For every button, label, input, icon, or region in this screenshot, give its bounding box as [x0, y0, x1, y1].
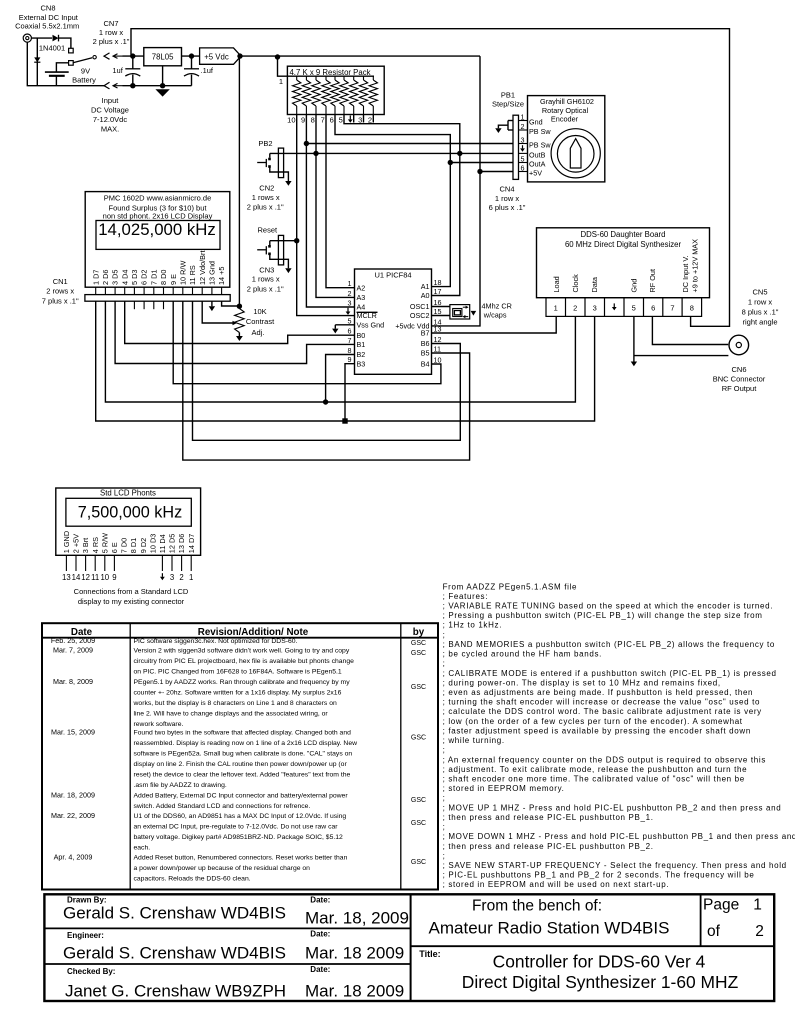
DDS-60 daughter board	[537, 228, 710, 298]
svg-text:1 rows x: 1 rows x	[252, 193, 280, 202]
svg-text:PB2: PB2	[258, 139, 272, 148]
svg-text:1: 1	[348, 279, 352, 288]
svg-text:10: 10	[434, 356, 442, 365]
svg-text:Mar. 8, 2009: Mar. 8, 2009	[53, 677, 93, 686]
wire net D6/B2/Clock	[105, 301, 575, 402]
svg-text:A1: A1	[421, 282, 430, 291]
input DC voltage label	[91, 96, 129, 134]
svg-text:3 D5: 3 D5	[111, 270, 120, 285]
wire DDS Gnd pin to ground and BNC shell	[633, 316, 635, 361]
svg-text:8 D0: 8 D0	[159, 270, 168, 285]
svg-text:2 rows x: 2 rows x	[46, 287, 74, 296]
capacitor C1 1uf	[112, 56, 140, 86]
svg-text:;: ;	[443, 659, 446, 668]
svg-text:; MOVE UP 1 MHZ - Press and ho: ; MOVE UP 1 MHZ - Press and hold PIC-EL …	[443, 803, 782, 812]
svg-text:CN5: CN5	[752, 288, 767, 297]
svg-text:18: 18	[434, 278, 442, 287]
wire net A4: pack pin9 to PIC pin3	[306, 115, 354, 308]
ground symbol main	[155, 89, 169, 96]
wire net D4/B0	[125, 301, 355, 343]
svg-text:16: 16	[434, 298, 442, 307]
svg-text:; CALIBRATE MODE is entered if: ; CALIBRATE MODE is entered if a pushbut…	[443, 669, 777, 678]
svg-text:; stored in EEPROM and will be: ; stored in EEPROM and will be used on n…	[443, 880, 670, 889]
svg-text:Amateur Radio Station WD4BIS: Amateur Radio Station WD4BIS	[429, 919, 670, 938]
svg-text:;: ;	[443, 630, 446, 639]
node OutA/A1 junction	[448, 160, 453, 165]
svg-text:circuitry from PIC EL projectb: circuitry from PIC EL projectboard, hex …	[134, 658, 355, 665]
svg-text:Added Battery, External DC Inp: Added Battery, External DC Input connect…	[134, 792, 349, 799]
svg-text:1: 1	[279, 77, 283, 86]
svg-text:1 row x: 1 row x	[748, 298, 772, 307]
svg-text:9: 9	[348, 355, 352, 364]
wire B3 to D7 net	[345, 364, 355, 421]
svg-text:Janet G. Crenshaw WB9ZPH: Janet G. Crenshaw WB9ZPH	[65, 982, 286, 1001]
svg-text:10 D3: 10 D3	[148, 534, 157, 553]
svg-text:Battery: Battery	[72, 76, 96, 85]
svg-text:B6: B6	[421, 339, 430, 348]
svg-text:From AADZZ PEgen5.1.ASM file: From AADZZ PEgen5.1.ASM file	[443, 582, 578, 591]
svg-text:14,025,000 kHz: 14,025,000 kHz	[98, 220, 216, 239]
svg-text:software is PEgen52a. Small bu: software is PEgen52a. Small bug when cal…	[134, 751, 353, 758]
svg-text:12 D5: 12 D5	[168, 534, 177, 553]
svg-text:Clock: Clock	[571, 274, 580, 293]
svg-text:reset) the device to clear the: reset) the device to clear the leftover …	[134, 772, 351, 779]
svg-text:;: ;	[443, 746, 446, 755]
svg-text:2: 2	[368, 115, 372, 124]
terminal square (ext DC throw)	[69, 48, 74, 53]
node +5/CN4 junction	[477, 169, 482, 174]
svg-text:line 2. Will have to change di: line 2. Will have to change displays and…	[134, 710, 329, 717]
wire net R/W/B5	[183, 301, 470, 460]
svg-text:Added Reset button, Renumbered: Added Reset button, Renumbered connector…	[134, 854, 348, 861]
wire encoder +5V	[480, 171, 513, 173]
svg-text:5 R/W: 5 R/W	[100, 533, 109, 553]
LCD Gnd pin ground	[211, 301, 213, 306]
pushbutton PB2	[257, 139, 291, 186]
svg-text:6: 6	[348, 327, 352, 336]
svg-text:2: 2	[573, 303, 577, 312]
svg-text:Reset: Reset	[258, 226, 279, 235]
svg-text:Mar. 22, 2009: Mar. 22, 2009	[51, 811, 95, 820]
connector CN2	[247, 148, 284, 211]
svg-text:9V: 9V	[81, 67, 90, 76]
switch S1 power select	[69, 56, 97, 66]
svg-text:GSC: GSC	[411, 684, 426, 691]
svg-text:GSC: GSC	[411, 650, 426, 657]
wire Reset to MCLR net	[270, 240, 297, 242]
svg-text:B4: B4	[421, 360, 430, 369]
wire LCD +5 pin to +5 net	[222, 301, 240, 306]
svg-text:switch. Added Standard LCD and: switch. Added Standard LCD and connectio…	[134, 803, 311, 810]
svg-text:5: 5	[348, 316, 352, 325]
svg-text:Gnd: Gnd	[529, 118, 543, 127]
svg-text:Load: Load	[552, 276, 561, 292]
svg-text:Feb. 25, 2009: Feb. 25, 2009	[51, 636, 95, 645]
svg-text:Version 2 with siggen3d softwa: Version 2 with siggen3d software didn’t …	[134, 648, 350, 655]
svg-text:GSC: GSC	[411, 820, 426, 827]
wire net RS/B6	[193, 301, 461, 440]
svg-text:9: 9	[301, 115, 305, 124]
svg-text:; be cycled around the HF ham: ; be cycled around the HF ham bands.	[443, 650, 602, 659]
wire +5 into pack pin 1	[278, 56, 375, 76]
wire net MCLR: pack pin10 to PIC pin4	[297, 115, 355, 316]
svg-text:8 D1: 8 D1	[129, 538, 138, 553]
svg-text:1 row x: 1 row x	[495, 194, 519, 203]
connector CN3	[247, 235, 284, 293]
svg-text:Date:: Date:	[310, 965, 330, 974]
svg-text:7: 7	[670, 303, 674, 312]
svg-text:7: 7	[348, 336, 352, 345]
Std LCD pinout reference block	[56, 488, 201, 555]
svg-text:GSC: GSC	[411, 859, 426, 866]
node D6/B2 junction	[323, 399, 328, 404]
svg-text:OutB: OutB	[529, 150, 546, 159]
wire encoder OutA to A1 net	[450, 162, 513, 164]
svg-text:Apr. 4, 2009: Apr. 4, 2009	[54, 852, 93, 861]
battery 9V	[45, 63, 96, 86]
svg-text:; even as adjustments are bein: ; even as adjustments are being made. If…	[443, 688, 754, 697]
svg-text:Checked By:: Checked By:	[67, 967, 115, 976]
svg-text:3: 3	[348, 299, 352, 308]
svg-text:1N4001: 1N4001	[39, 44, 65, 53]
svg-text:each.: each.	[134, 845, 151, 852]
svg-text:;: ;	[443, 823, 446, 832]
svg-text:by: by	[413, 627, 425, 638]
BNC connector CN6	[713, 335, 766, 393]
wire PB2 to A3 net and encoder OutB	[270, 152, 513, 154]
svg-text:Grayhill GH6102: Grayhill GH6102	[540, 97, 594, 106]
svg-text:8: 8	[311, 115, 315, 124]
svg-text:OSC2: OSC2	[410, 311, 430, 320]
svg-text:; BAND MEMORIES a pushbutton s: ; BAND MEMORIES a pushbutton switch (PIC…	[443, 640, 775, 649]
node 1uf/Vin junction	[130, 53, 135, 58]
svg-text:A3: A3	[357, 293, 366, 302]
svg-text:; An external frequency counte: ; An external frequency counter on the D…	[443, 755, 766, 764]
svg-text:Gnd: Gnd	[630, 279, 639, 293]
node .1uf junction	[189, 53, 194, 58]
connector CN1	[42, 277, 230, 306]
svg-text:2: 2	[348, 289, 352, 298]
svg-text:CN1: CN1	[53, 277, 68, 286]
svg-text:Contrast: Contrast	[246, 317, 275, 326]
svg-text:Controller for DDS-60 Ver 4: Controller for DDS-60 Ver 4	[493, 952, 706, 972]
wire B2 to D6 net	[326, 355, 355, 403]
svg-text:Mar. 7, 2009: Mar. 7, 2009	[53, 646, 93, 655]
svg-text:1: 1	[753, 897, 762, 914]
diode D1 1N4001	[39, 35, 65, 53]
svg-text:4.7 K x 9 Resistor Pack: 4.7 K x 9 Resistor Pack	[289, 68, 370, 77]
svg-text:BNC Connector: BNC Connector	[713, 375, 766, 384]
MCLR overbar	[357, 311, 378, 313]
svg-text:10: 10	[100, 573, 109, 582]
svg-text:B7: B7	[421, 329, 430, 338]
svg-text:PB Sw: PB Sw	[529, 127, 551, 136]
svg-text:10: 10	[287, 115, 295, 124]
rotary encoder Grayhill GH6102	[528, 96, 605, 182]
svg-text:CN4: CN4	[499, 185, 514, 194]
svg-text:RF Output: RF Output	[722, 384, 758, 393]
svg-text:4 RS: 4 RS	[91, 537, 100, 553]
svg-text:6 plus x .1": 6 plus x .1"	[489, 203, 526, 212]
svg-text:PIC software siggen3c.hex. Not: PIC software siggen3c.hex. Not optimized…	[134, 638, 298, 645]
svg-text:7,500,000 kHz: 7,500,000 kHz	[78, 503, 182, 521]
svg-text:8: 8	[690, 303, 694, 312]
node encoder PBSw/A4 junction	[304, 141, 309, 146]
regulator ground lead	[162, 66, 164, 86]
svg-text:; turning the shaft encoder wi: ; turning the shaft encoder will increas…	[443, 698, 761, 707]
svg-text:GSC: GSC	[411, 640, 426, 647]
svg-text:; then press and release PIC-E: ; then press and release PIC-EL pushbutt…	[443, 813, 654, 822]
resistor elements R1-R9 in pack	[296, 76, 298, 80]
svg-text:11 D4: 11 D4	[158, 534, 167, 553]
svg-text:2 plus x .1": 2 plus x .1"	[93, 37, 130, 46]
wire Vss to ground	[335, 324, 354, 326]
wire regulator output	[182, 55, 200, 57]
svg-text:Gerald S. Crenshaw WD4BIS: Gerald S. Crenshaw WD4BIS	[63, 904, 286, 923]
svg-text:12 Vdo/Brt: 12 Vdo/Brt	[198, 251, 207, 285]
svg-text:; shaft encoder one more time.: ; shaft encoder one more time. The calib…	[443, 775, 745, 784]
wire coax center to diode	[31, 37, 52, 39]
node Reset/MCLR junction	[294, 238, 299, 243]
svg-text:CN2: CN2	[259, 184, 274, 193]
svg-text:Std LCD Phonts: Std LCD Phonts	[100, 488, 156, 497]
title block	[44, 894, 774, 1001]
shunt diode on input	[34, 38, 40, 86]
svg-text:; 1Hz to 1kHz.: ; 1Hz to 1kHz.	[443, 621, 502, 630]
svg-text:12: 12	[81, 573, 90, 582]
svg-text:CN3: CN3	[259, 266, 274, 275]
svg-text:an external DC Input, pre-regu: an external DC Input, pre-regulate to 7-…	[134, 824, 339, 831]
svg-text:; faster adjustment speed is a: ; faster adjustment speed is available b…	[443, 726, 751, 735]
svg-text:DC Input V.: DC Input V.	[681, 255, 690, 292]
svg-text:rework software.: rework software.	[134, 721, 184, 728]
svg-text:Coaxial 5.5x2.1mm: Coaxial 5.5x2.1mm	[15, 22, 79, 31]
svg-text:PB1: PB1	[501, 91, 515, 100]
svg-text:B1: B1	[357, 340, 366, 349]
svg-text:Input: Input	[102, 96, 120, 105]
svg-text:of: of	[707, 923, 721, 940]
encoder Gnd/PBSw to ground	[508, 120, 513, 122]
svg-text:Mar. 18 2009: Mar. 18 2009	[305, 982, 404, 1001]
capacitor C2 .1uf	[184, 56, 214, 86]
node +5 branch down	[237, 53, 242, 58]
svg-text:battery voltage. Digikey part#: battery voltage. Digikey part# AD9851BRZ…	[134, 834, 344, 841]
svg-text:counter +- 20hz. Software writ: counter +- 20hz. Software written for a …	[134, 689, 342, 696]
svg-text:GSC: GSC	[411, 797, 426, 804]
wire net A2: pack pin7 to PIC pin1	[326, 115, 355, 288]
ceramic resonator X1 4MHz	[432, 302, 512, 320]
wire net A1/OutA: pack pin6 down and over	[335, 115, 450, 287]
svg-text:11 RS: 11 RS	[188, 265, 197, 285]
node PB2/A3 junction	[313, 151, 318, 156]
svg-text:Mar. 15, 2009: Mar. 15, 2009	[51, 728, 95, 737]
svg-text:B2: B2	[357, 350, 366, 359]
svg-text:1: 1	[189, 573, 193, 582]
connector CN4	[489, 115, 526, 212]
svg-text:; then press and release PIC-E: ; then press and release PIC-EL pushbutt…	[443, 842, 654, 851]
+5V rail to right	[241, 55, 480, 57]
svg-text:;: ;	[443, 794, 446, 803]
svg-text:Engineer:: Engineer:	[67, 931, 104, 940]
resistor pack RP1 4.7K x 9	[287, 66, 384, 114]
connector CN8 coaxial DC input jack	[15, 4, 79, 43]
wire coax shield down to ground rail	[27, 42, 104, 85]
svg-text:3: 3	[170, 573, 174, 582]
svg-text:Gerald S. Crenshaw WD4BIS: Gerald S. Crenshaw WD4BIS	[63, 944, 286, 963]
svg-text:8: 8	[348, 346, 352, 355]
svg-text:; stored in EEPROM memory.: ; stored in EEPROM memory.	[443, 784, 565, 793]
svg-text:RF Out: RF Out	[648, 269, 657, 293]
svg-text:; SAVE NEW START-UP FREQUENCY: ; SAVE NEW START-UP FREQUENCY - Select t…	[443, 861, 787, 870]
raw DC rail to DDS pin 8	[131, 29, 730, 327]
svg-text:8 plus x .1": 8 plus x .1"	[742, 308, 779, 317]
svg-text:a power down/power up because: a power down/power up because of the res…	[134, 865, 311, 872]
svg-text:2 plus x .1": 2 plus x .1"	[247, 284, 284, 293]
svg-text:1 D7: 1 D7	[91, 270, 100, 285]
svg-text:right angle: right angle	[742, 318, 777, 327]
svg-text:; MOVE DOWN 1 MHZ - Press and: ; MOVE DOWN 1 MHZ - Press and hold PIC-E…	[443, 832, 795, 841]
svg-text:6 D2: 6 D2	[140, 270, 149, 285]
svg-text:+5 Vdc: +5 Vdc	[204, 52, 229, 61]
svg-text:3 Brt: 3 Brt	[81, 538, 90, 553]
svg-text:7 D0: 7 D0	[120, 538, 129, 553]
wire encoder PBSw to A4 net	[306, 143, 513, 145]
svg-text:DC Voltage: DC Voltage	[91, 106, 129, 115]
revision table	[42, 623, 438, 889]
svg-text:PMC 1602D www.asianmicro.de: PMC 1602D www.asianmicro.de	[104, 193, 212, 202]
svg-text:GSC: GSC	[411, 735, 426, 742]
svg-text:+5V: +5V	[529, 169, 542, 178]
svg-text:9: 9	[112, 573, 116, 582]
wire DDS RF Out to BNC	[652, 316, 728, 344]
potentiometer 10K contrast	[235, 307, 275, 341]
svg-text:11: 11	[434, 345, 441, 354]
svg-text:Step/Size: Step/Size	[492, 100, 524, 109]
svg-text:U1 PICF84: U1 PICF84	[374, 271, 411, 280]
wire net D7/B3/Data	[96, 301, 595, 421]
svg-text:Mar. 18 2009: Mar. 18 2009	[305, 944, 404, 963]
svg-text:; while turning.: ; while turning.	[443, 736, 505, 745]
ground rail under regulator	[123, 85, 192, 87]
wire net E/B4	[173, 301, 441, 384]
svg-text:CN6: CN6	[731, 365, 746, 374]
svg-text:A0: A0	[421, 291, 430, 300]
svg-text:1 rows x: 1 rows x	[252, 275, 280, 284]
svg-text:; Features:: ; Features:	[443, 592, 489, 601]
svg-text:6: 6	[651, 303, 655, 312]
wire LCD Vdo to contrast wiper	[202, 301, 232, 323]
svg-text:3: 3	[358, 115, 362, 124]
svg-text:From the bench of:: From the bench of:	[472, 898, 602, 915]
svg-text:OSC1: OSC1	[410, 302, 430, 311]
svg-text:Adj.: Adj.	[252, 328, 265, 337]
svg-text:; calculate the DDS control wo: ; calculate the DDS control word. The ba…	[443, 707, 762, 716]
svg-text:.1uf: .1uf	[201, 66, 214, 75]
wire net A3: pack pin8 to PIC pin2	[316, 115, 355, 298]
svg-text:9 E: 9 E	[169, 274, 178, 285]
wire net D5/B1	[115, 301, 354, 363]
svg-text:Mar. 18, 2009: Mar. 18, 2009	[305, 909, 409, 928]
svg-text:9 D2: 9 D2	[139, 538, 148, 553]
svg-text:13 D6: 13 D6	[177, 534, 186, 553]
svg-text:60 MHz Direct Digital Synthesi: 60 MHz Direct Digital Synthesizer	[565, 240, 682, 249]
svg-text:15: 15	[434, 307, 442, 316]
svg-text:Page: Page	[703, 897, 739, 914]
connector CN7 pin arrows	[93, 19, 130, 89]
+5 vertical rail to contrast pot	[238, 56, 240, 307]
svg-text:14 +5: 14 +5	[217, 267, 226, 285]
svg-text:7-12.0Vdc: 7-12.0Vdc	[93, 115, 127, 124]
Std LCD stubs and mapping numbers	[65, 555, 67, 571]
svg-text:13: 13	[62, 573, 71, 582]
svg-text:6 E: 6 E	[110, 542, 119, 553]
svg-text:PB Sw: PB Sw	[529, 141, 551, 150]
regulator U2 78L05	[144, 48, 182, 66]
svg-text:2: 2	[755, 923, 764, 940]
connector CN5 labels	[742, 288, 779, 327]
node D7/B3 junction	[342, 418, 347, 423]
svg-text:DDS-60 Daughter Board: DDS-60 Daughter Board	[581, 230, 666, 239]
svg-text:on PIC. PIC Changed from 16F62: on PIC. PIC Changed from 16F628 to 16F84…	[134, 669, 342, 676]
svg-text:; Pressing a pushbutton switch: ; Pressing a pushbutton switch (PIC-EL P…	[443, 611, 763, 620]
svg-text:Direct Digital Synthesizer 1-6: Direct Digital Synthesizer 1-60 MHZ	[462, 972, 739, 992]
svg-text:12: 12	[434, 335, 442, 344]
svg-text:1: 1	[554, 303, 558, 312]
svg-text:2 D6: 2 D6	[101, 270, 110, 285]
wire CN7 top pin to regulator input and raw DC rail	[123, 55, 144, 57]
svg-text:13 Gnd: 13 Gnd	[208, 261, 217, 285]
svg-text:7 plus x .1": 7 plus x .1"	[42, 297, 79, 306]
svg-text:Mar. 18, 2009: Mar. 18, 2009	[51, 790, 95, 799]
svg-text:10 R/W: 10 R/W	[178, 261, 187, 285]
svg-text:CN7: CN7	[103, 19, 118, 28]
node LCD +5 junction	[237, 304, 242, 309]
svg-text:display on line 2. Finish the: display on line 2. Finish the CAL routin…	[134, 761, 348, 768]
svg-text:CN8: CN8	[40, 4, 55, 13]
svg-text:1uf: 1uf	[112, 66, 123, 75]
svg-text:5: 5	[632, 303, 636, 312]
svg-text:PEgen5.1 by AADZZ works. Ran t: PEgen5.1 by AADZZ works. Ran through cal…	[134, 679, 351, 686]
svg-text:capacitors. Reloads the DDS-60: capacitors. Reloads the DDS-60 clean.	[134, 875, 251, 882]
svg-text:.asm file by AADZZ to drawing.: .asm file by AADZZ to drawing.	[134, 782, 227, 789]
wire net A0/OutB: pack pin5 down and over	[344, 115, 460, 296]
wire diode to switch terminal	[59, 38, 71, 48]
svg-text:10K: 10K	[253, 307, 266, 316]
svg-text:3: 3	[593, 303, 597, 312]
LCD pins into CN1	[95, 287, 97, 294]
svg-text:MAX.: MAX.	[101, 125, 119, 134]
svg-text:A2: A2	[357, 283, 366, 292]
+5 Vdc power flag	[200, 48, 241, 64]
svg-text:14 D7: 14 D7	[187, 534, 196, 553]
svg-text:; adjustment. To exit calibrat: ; adjustment. To exit calibrate mode, re…	[443, 765, 748, 774]
svg-text:B3: B3	[357, 359, 366, 368]
svg-text:Vss Gnd: Vss Gnd	[357, 320, 385, 329]
svg-text:2 +5V: 2 +5V	[72, 534, 81, 553]
svg-text:; during power-on. The display: ; during power-on. The display is set to…	[443, 678, 721, 687]
svg-text:OutA: OutA	[529, 160, 546, 169]
svg-text:11: 11	[91, 573, 99, 582]
svg-text:Date:: Date:	[310, 896, 330, 905]
svg-text:7 D1: 7 D1	[149, 270, 158, 285]
svg-text:Encoder: Encoder	[551, 114, 579, 123]
svg-text:B5: B5	[421, 349, 430, 358]
svg-text:2 plus x .1": 2 plus x .1"	[247, 203, 284, 212]
wire Vdd to +5	[432, 56, 481, 326]
svg-text:;: ;	[443, 851, 446, 860]
node +5 to resistor pack	[275, 54, 280, 59]
svg-text:works, but the display is 8 ch: works, but the display is 8 characters o…	[133, 700, 337, 707]
